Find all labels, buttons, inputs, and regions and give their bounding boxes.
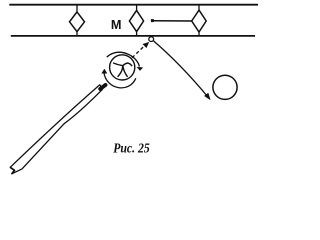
cord with arrow to ball [154,41,209,98]
horizontal rod [154,20,192,22]
small pulley node [149,37,154,42]
diamond 3 [192,10,207,32]
arrow shaft [10,85,102,174]
arrow dark tip [100,85,105,89]
rotation arc bottom arrowhead [102,69,107,73]
tail notch [10,167,14,174]
svg-text:Рис. 25: Рис. 25 [113,142,150,157]
rotation arc bottom [104,73,136,88]
pivot dot [151,19,154,22]
spinning clew circle [110,55,135,80]
diamond 2 [129,10,143,31]
svg-text:M: M [111,17,122,32]
hanger stem 2 [136,5,138,36]
cord arrowhead [204,93,210,100]
dashed cord to pulley [132,45,145,58]
dashed cord arrowhead [143,42,149,48]
hanger stem 1 [76,5,78,36]
ceiling top line [9,4,258,6]
ball [213,75,237,99]
clew mark [114,63,132,76]
hanger stem 3 [198,5,200,36]
rotation arc top arrowhead [137,67,143,71]
rotation arc top [107,52,140,66]
diamond 1 [70,12,85,32]
ceiling bottom line [11,35,255,37]
